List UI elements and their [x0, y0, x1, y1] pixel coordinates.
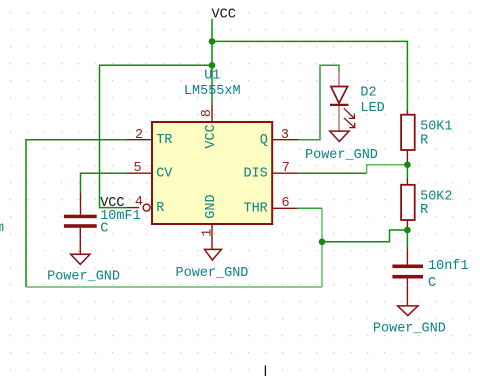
pin 2 TR	[127, 139, 153, 141]
capacitor 10nf1 lead top	[406, 247, 408, 265]
resistor 50K1 lead top	[406, 111, 408, 116]
svg-text:6: 6	[282, 196, 290, 211]
wire DIS step (light)	[367, 165, 408, 173]
pin 1 GND	[211, 224, 213, 249]
capacitor 10nf1 lead bottom	[406, 279, 408, 306]
resistor 50K2 lead bottom	[406, 220, 408, 228]
capacitor 10mF1 plate 2	[64, 224, 97, 228]
ground symbol below LED	[330, 131, 349, 141]
junction between resistors	[404, 161, 411, 168]
pin 4 R with inversion bubble	[127, 207, 140, 209]
resistor 50K1 body	[401, 115, 415, 150]
pin 8 VCC	[211, 104, 213, 122]
junction VCC-2	[209, 62, 216, 69]
capacitor 10mF1 lead bottom	[79, 228, 81, 255]
LED D2 cathode lead	[338, 106, 340, 131]
svg-text:C: C	[100, 222, 108, 237]
svg-text:GND: GND	[204, 194, 219, 218]
wire TR net bottom (light)	[26, 286, 322, 288]
ground symbol below pin 1	[205, 249, 222, 260]
svg-text:U1: U1	[204, 69, 220, 84]
svg-text:LM555xM: LM555xM	[184, 84, 241, 99]
wire DIS	[298, 172, 366, 174]
svg-text:VCC: VCC	[212, 8, 236, 23]
svg-text:DIS: DIS	[243, 166, 267, 181]
resistor 50K2 lead top	[406, 179, 408, 186]
junction THR net	[319, 239, 326, 246]
LED D2 cathode bar	[330, 104, 349, 106]
capacitor 10mF1 lead top	[80, 193, 82, 215]
svg-text:Q: Q	[260, 133, 268, 148]
svg-text:Power_GND: Power_GND	[373, 322, 446, 337]
svg-text:C: C	[428, 276, 436, 291]
LED D2 triangle	[331, 87, 348, 104]
svg-text:8: 8	[200, 109, 215, 117]
svg-text:D2: D2	[360, 86, 376, 101]
pin 6 THR	[272, 207, 298, 209]
wire junction to 10nf1	[406, 233, 408, 247]
svg-text:TR: TR	[156, 133, 172, 148]
pin 7 DIS	[272, 172, 298, 174]
sheet border tick (bottom)	[264, 366, 266, 377]
LED D2 emission arrow 2	[344, 118, 355, 128]
junction VCC-1	[209, 38, 216, 45]
svg-text:1: 1	[201, 229, 216, 237]
wire THR to C bottom	[322, 230, 407, 242]
wire VCC to pin4 R	[100, 65, 213, 207]
svg-text:Power_GND: Power_GND	[305, 148, 378, 163]
capacitor 10nf1 plate 1	[392, 265, 423, 269]
wire Q to LED	[298, 65, 339, 139]
LED D2 anode lead	[338, 72, 340, 87]
svg-text:CV: CV	[156, 166, 173, 181]
wire between resistors	[406, 167, 408, 179]
junction 50K2 bottom	[404, 227, 411, 234]
svg-text:7: 7	[282, 161, 290, 176]
svg-text:3: 3	[281, 128, 289, 143]
svg-text:LED: LED	[360, 101, 384, 116]
resistor 50K2 body	[401, 185, 415, 220]
ground symbol below 10nf1	[398, 306, 418, 316]
svg-text:R: R	[420, 203, 428, 218]
pin 3 Q	[272, 139, 298, 141]
wire CV	[81, 173, 127, 193]
capacitor 10mF1 plate 1	[64, 215, 97, 219]
wire TR net left	[26, 140, 127, 287]
svg-text:50K1: 50K1	[420, 120, 452, 135]
U1 body	[152, 122, 272, 224]
capacitor 10nf1 plate 2	[392, 275, 423, 279]
svg-text:2: 2	[135, 128, 143, 143]
svg-text:10nf1: 10nf1	[428, 259, 469, 274]
svg-text:5: 5	[134, 161, 142, 176]
wire VCC to 50K1 top	[212, 41, 407, 110]
svg-text:R: R	[156, 201, 164, 216]
pin 5 CV	[127, 172, 153, 174]
svg-text:Power_GND: Power_GND	[176, 266, 249, 281]
ground symbol below 10mF1	[71, 254, 90, 264]
svg-text:Power_GND: Power_GND	[47, 270, 120, 285]
wire THR	[298, 207, 322, 209]
LED D2 emission arrow 1	[344, 108, 355, 118]
resistor 50K1 lead bottom	[406, 150, 408, 163]
svg-text:R: R	[420, 134, 428, 149]
svg-text:THR: THR	[243, 202, 267, 217]
wire THR vertical (light)	[321, 208, 323, 287]
wire VCC stem	[211, 19, 213, 104]
svg-text:VCC: VCC	[204, 124, 219, 148]
svg-text:m: m	[0, 221, 4, 236]
